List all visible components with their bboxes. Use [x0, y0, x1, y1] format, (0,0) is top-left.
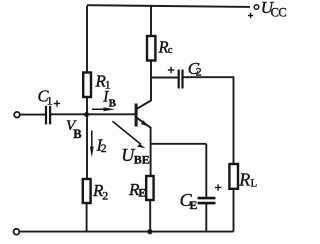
svg-text:2: 2 — [102, 188, 108, 202]
svg-text:R: R — [238, 170, 250, 190]
svg-text:2: 2 — [101, 141, 107, 155]
svg-text:B: B — [73, 127, 81, 141]
svg-text:L: L — [251, 178, 258, 190]
svg-text:E: E — [138, 188, 146, 200]
svg-text:2: 2 — [196, 65, 202, 79]
svg-text:1: 1 — [105, 77, 111, 91]
svg-text:1: 1 — [47, 93, 53, 107]
svg-text:c: c — [168, 44, 173, 56]
svg-text:BE: BE — [134, 152, 150, 166]
svg-text:CC: CC — [271, 6, 287, 20]
svg-text:E: E — [189, 198, 197, 212]
svg-text:B: B — [109, 97, 117, 109]
